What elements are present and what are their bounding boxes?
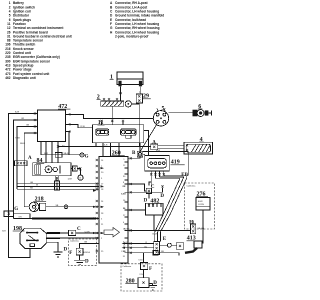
wire battery right terminal to connector 29 [139, 86, 140, 94]
svg-text:6-R: 6-R [104, 145, 108, 147]
wire A connector to coil [158, 145, 184, 148]
connector E [154, 237, 167, 255]
ground D below C [144, 194, 149, 204]
svg-text:B-GN: B-GN [153, 233, 159, 235]
svg-text:GN: GN [26, 125, 30, 127]
wire 260 bottom right [128, 252, 153, 254]
wire OR to 260 [13, 217, 32, 219]
svg-text:G: G [14, 207, 18, 212]
connector C (small, at 84) [72, 166, 82, 173]
fusebox 11 [93, 120, 144, 143]
svg-text:SB-R: SB-R [20, 143, 25, 145]
ground D (shift) [148, 281, 157, 290]
wire distributor to spark plug [169, 112, 193, 114]
inline connector on throttle wire [68, 230, 75, 235]
wire fusebox bottom left [58, 143, 151, 147]
ignition coil 4 [184, 137, 213, 154]
relay 419 [145, 156, 185, 171]
legend right column [110, 1, 164, 38]
260 left edge pins [96, 159, 98, 252]
wire 482 down to B-GN wire [153, 215, 155, 231]
ground D (at throttle switch) [54, 248, 68, 257]
connector C (mid) [146, 185, 155, 194]
spark plug 6 [193, 104, 212, 117]
wire knock sensor to 260 [46, 206, 99, 208]
connector A (3-pole, left) [15, 156, 32, 166]
inline connector on G wire [55, 152, 62, 157]
svg-text:California: California [122, 265, 132, 268]
connector H [189, 221, 196, 234]
wire throttle switch bottom to bus [29, 248, 31, 258]
wire C to 260 [128, 184, 146, 191]
svg-text:H: H [189, 221, 193, 226]
connector 29 [136, 94, 151, 103]
wire 260 to connector F2 [143, 253, 145, 263]
svg-text:2-pole, moisture-proof: 2-pole, moisture-proof [115, 34, 149, 38]
svg-text:462: 462 [5, 76, 10, 80]
wire node B to 260 [128, 154, 145, 158]
svg-text:GN: GN [84, 242, 88, 244]
wire ignition switch circle to connector 29 wire [131, 103, 139, 105]
svg-text:C: C [77, 227, 81, 232]
wire ignition switch to fusebox [111, 106, 113, 125]
svg-text:B-W: B-W [156, 150, 160, 152]
California box (shift solenoid) [121, 264, 162, 291]
fuse F1 [96, 129, 109, 135]
speed pickup 413 [185, 236, 202, 253]
wire 419 pins down [149, 173, 164, 185]
svg-text:D: D [144, 198, 148, 203]
wire 84 to connector C [71, 168, 72, 170]
svg-text:D: D [85, 259, 89, 264]
svg-text:SB-W: SB-W [64, 153, 69, 155]
wire distributor to node B diagonal [140, 125, 157, 152]
svg-text:A: A [28, 156, 32, 161]
svg-text:SB-GN: SB-GN [198, 228, 205, 230]
wire 472 bottom pins [41, 142, 58, 163]
ground D column right [160, 185, 164, 199]
wires connector B to 260 [17, 184, 99, 190]
wire fusebox bottom to control unit 260 [103, 143, 119, 157]
diagnostic unit 482 [145, 198, 163, 215]
svg-text:California: California [70, 240, 80, 243]
wire battery left terminal to ignition switch [120, 86, 122, 101]
wire fusebox bottom to node B [139, 143, 141, 152]
wire D box to 260 [128, 191, 163, 193]
wire throttle switch pin 2 (thick) [46, 237, 60, 239]
wire knock sensor left to bus [24, 206, 29, 208]
wire bus left 4 [24, 133, 37, 207]
wire fusebox right to 419 [144, 131, 149, 156]
260 right edge pins [130, 157, 132, 254]
knock sensor 218 [29, 197, 46, 212]
260 inner pin ticks right edge [125, 162, 129, 253]
260 inner arrows left edge [101, 167, 105, 234]
distributor 5 [153, 106, 168, 126]
fuse F2 [121, 129, 136, 138]
block arrow in 260 [104, 228, 120, 237]
node G lower [4, 207, 18, 216]
wire 472 right pin 3 [66, 132, 70, 155]
svg-text:B-R: B-R [2, 231, 6, 233]
wire B-W across top of 419 [143, 152, 189, 175]
wire throttle switch pin 3 to ground D [46, 242, 58, 252]
svg-text:5-GN: 5-GN [85, 231, 90, 233]
wire 419 pins to diagonal bundle [155, 175, 188, 179]
svg-text:F: F [69, 251, 72, 256]
node B junction [132, 151, 143, 157]
svg-text:Diagnostic unit: Diagnostic unit [13, 76, 36, 80]
wire F2 to 280 [143, 270, 145, 278]
wires connector E to speed pickup [159, 244, 176, 246]
throttle switch 198 [13, 226, 47, 249]
wire bus left 3 [17, 127, 38, 190]
wire EGR converter down [202, 210, 204, 244]
California box EGR converter [185, 183, 215, 229]
svg-text:G: G [85, 155, 89, 160]
svg-text:W-R: W-R [44, 153, 49, 155]
svg-text:A: A [152, 140, 156, 145]
wire 472 right pin 2 [66, 124, 93, 127]
wire H top up [192, 221, 194, 225]
connector F2 [140, 262, 152, 272]
wire diagonal bundle to connector E [155, 178, 187, 242]
EGR converter box [196, 198, 210, 211]
svg-text:W: W [36, 185, 38, 187]
svg-text:D: D [64, 248, 68, 253]
connector at speed pickup [177, 242, 184, 250]
419 bottom pins [150, 171, 165, 176]
pin numbers on control unit 260 [101, 159, 126, 258]
node G [80, 153, 89, 160]
fusebox top pins [100, 120, 124, 125]
wire 472 right pin 1 [66, 114, 140, 118]
node 1237B [68, 169, 84, 181]
wire connector 29 down [138, 103, 140, 147]
temperature sensor 84 [33, 158, 71, 176]
wire throttle switch pin 1 (thick) [46, 232, 60, 234]
svg-text:OR: OR [21, 118, 25, 120]
solenoid 280 [125, 278, 149, 288]
svg-text:EGR A: EGR A [83, 251, 90, 254]
wire bus left 1 [9, 114, 38, 258]
battery 1 [110, 72, 143, 86]
svg-text:Y-SB: Y-SB [15, 138, 20, 140]
power stage 472 [38, 104, 71, 142]
wires 260 to connector E [128, 244, 154, 248]
tiny wire color labels [30, 145, 148, 249]
svg-text:D: D [160, 194, 164, 199]
wire 84 down to connector B [56, 176, 59, 181]
svg-text:EGR: EGR [198, 201, 203, 203]
svg-text:B-W: B-W [15, 112, 19, 114]
California box (EGR temp sensor) [69, 239, 97, 266]
wire bus left 2 [13, 120, 37, 218]
svg-text:F: F [149, 267, 152, 272]
wire F up to 260 [80, 243, 99, 248]
wire to node G [41, 154, 80, 156]
connector A (RH A-post, at coil) [151, 140, 158, 149]
svg-text:6-R: 6-R [125, 242, 129, 244]
junction node on knock wire [64, 205, 68, 209]
svg-text:California: California [187, 184, 197, 187]
ignition switch 2 [97, 95, 132, 107]
wire G box right [14, 214, 30, 219]
connector F (in California box) [69, 248, 90, 256]
wire 482 to 260 [128, 209, 145, 211]
svg-text:CONV: CONV [198, 204, 205, 206]
wire B-GN from 260 [128, 229, 191, 231]
control unit 260 [99, 151, 128, 263]
wire distributor left [139, 117, 153, 119]
connector B (3-pole) [55, 177, 60, 190]
ground D (California) [74, 255, 89, 264]
inline connector on bottom wire [153, 250, 158, 255]
svg-text:GN: GN [30, 182, 34, 184]
svg-text:R-W: R-W [81, 126, 85, 128]
svg-text:OR: OR [19, 217, 23, 219]
legend left column [5, 1, 71, 80]
wire arrowheads into 260 [93, 190, 97, 235]
connector ring after E [167, 243, 171, 247]
